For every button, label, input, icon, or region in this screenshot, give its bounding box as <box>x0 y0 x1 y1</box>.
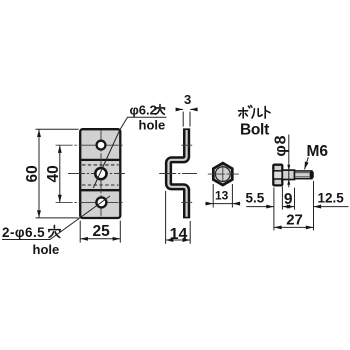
dim 14 ext left <box>165 191 167 244</box>
dim 60 line <box>38 130 40 218</box>
phi8 arrow lower <box>287 179 290 185</box>
dim 25 ext right <box>119 221 121 243</box>
bolt ext line tip <box>313 181 315 230</box>
svg-text:60: 60 <box>24 165 41 182</box>
svg-text:φ8: φ8 <box>272 135 289 157</box>
dim 60 extension bottom <box>36 217 79 219</box>
dim 13 connector <box>213 203 232 205</box>
bolt thread body <box>295 171 312 179</box>
hex horizontal centerline <box>208 173 239 175</box>
hex vertical centerline <box>222 164 224 184</box>
svg-text:φ6.2: φ6.2 <box>130 102 157 117</box>
bolt ext line head left <box>273 188 275 231</box>
dim 14 line <box>166 239 190 241</box>
svg-text:Bolt: Bolt <box>240 121 269 138</box>
phi8 dim line vertical <box>288 135 290 188</box>
svg-text:13: 13 <box>215 189 229 203</box>
dim 40 line <box>59 145 61 202</box>
dim 3 ext left <box>182 112 184 127</box>
bolt ext line shoulder end <box>294 188 296 210</box>
strip top hole tick <box>181 144 192 146</box>
bolt ext line head right <box>281 187 283 210</box>
svg-text:5.5: 5.5 <box>246 191 265 206</box>
leader 2-phi6.5 <box>2 196 110 240</box>
thread root line lower <box>295 176 310 178</box>
svg-text:M6: M6 <box>307 143 329 160</box>
M6 leader <box>305 157 309 169</box>
plate divider line lower <box>80 189 120 191</box>
bolt head middle band highlight <box>274 172 281 178</box>
bolt head facet line upper <box>273 170 282 172</box>
bolt head facet line lower <box>273 178 282 180</box>
svg-text:25: 25 <box>93 223 111 240</box>
bolt tip <box>310 171 314 179</box>
hex inner circle <box>215 167 230 182</box>
top hole <box>97 141 106 150</box>
middle hole centerline <box>68 173 125 175</box>
hidden edge upper (dashed) <box>82 164 119 166</box>
bolt chain dim line 5.5 tail <box>246 206 273 208</box>
dim 3 arrow right <box>190 108 197 110</box>
middle hole <box>95 168 106 179</box>
thread root line upper <box>295 172 310 174</box>
dim 25 line <box>80 238 120 240</box>
bolt title katakana to <box>265 106 270 118</box>
dim 25 ext left <box>79 221 81 243</box>
dim 60 extension top <box>36 128 79 130</box>
svg-text:14: 14 <box>170 226 188 243</box>
svg-text:27: 27 <box>286 211 303 228</box>
bolt shoulder <box>282 170 294 179</box>
top hole centerline <box>56 144 123 146</box>
Z profile strip gray core <box>169 130 187 217</box>
vertical centerline of holes <box>100 130 102 217</box>
dim 14 ext right <box>189 221 191 244</box>
dim 13 arrow left <box>205 203 213 205</box>
bolt title katakana bo <box>239 106 252 119</box>
dim 3 arrow left <box>176 108 183 110</box>
dim 3 ext right <box>189 112 191 127</box>
leader phi6.2 <box>93 117 166 188</box>
bolt head <box>273 165 282 186</box>
strip bottom hole tick <box>181 201 192 203</box>
bolt chain dim 9 <box>283 206 295 208</box>
plate front view body <box>80 129 120 218</box>
kanji ana 2 <box>49 225 61 237</box>
svg-text:hole: hole <box>139 118 166 133</box>
bolt title katakana ru <box>252 109 262 118</box>
svg-text:2-φ6.5: 2-φ6.5 <box>2 225 45 240</box>
hex nut outline <box>213 163 232 185</box>
bottom hole <box>96 197 106 207</box>
strip middle centerline <box>159 173 197 175</box>
svg-text:3: 3 <box>184 92 191 107</box>
bottom hole centerline <box>56 201 123 203</box>
kanji ana 1 <box>155 105 164 115</box>
phi8 arrow upper <box>287 165 290 171</box>
dim 13 arrow right <box>233 203 241 205</box>
svg-text:hole: hole <box>33 242 60 257</box>
plate divider line upper <box>80 159 120 161</box>
bolt chain dim 12.5 tail <box>314 206 349 208</box>
svg-text:12.5: 12.5 <box>318 191 345 206</box>
svg-text:40: 40 <box>45 165 62 182</box>
dim 13 ext left <box>212 184 214 208</box>
dim 27 line <box>274 226 313 228</box>
dim 13 ext right <box>231 184 233 208</box>
svg-text:9: 9 <box>284 191 293 208</box>
hidden edge lower (dashed) <box>82 184 119 186</box>
Z profile strip outline <box>169 128 187 218</box>
